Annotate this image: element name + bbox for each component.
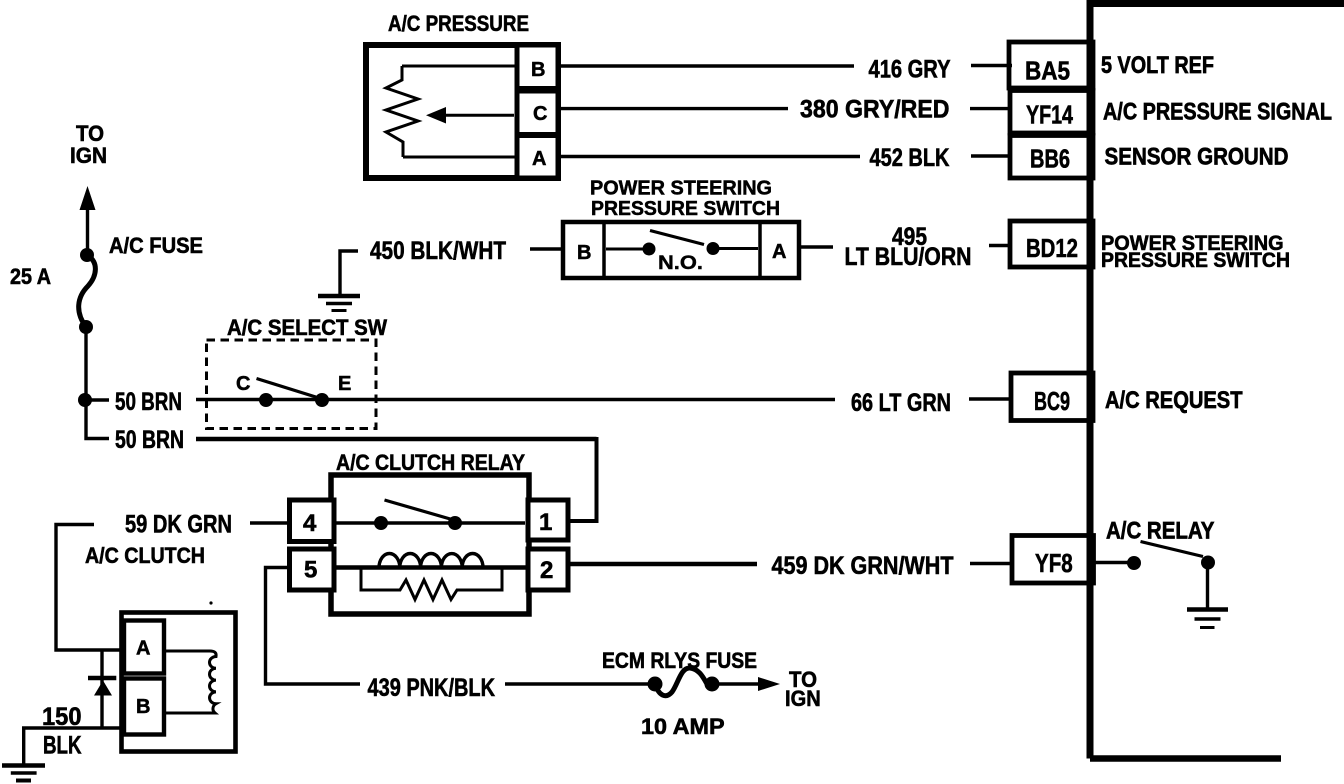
svg-text:B: B	[577, 242, 591, 264]
svg-text:380 GRY/RED: 380 GRY/RED	[800, 96, 950, 124]
svg-text:BB6: BB6	[1030, 144, 1070, 174]
svg-text:1: 1	[539, 509, 552, 536]
svg-text:59 DK GRN: 59 DK GRN	[125, 511, 232, 539]
svg-text:50 BRN: 50 BRN	[115, 426, 184, 454]
svg-text:LT BLU/ORN: LT BLU/ORN	[845, 243, 972, 271]
svg-text:A/C REQUEST: A/C REQUEST	[1105, 387, 1243, 414]
svg-text:459 DK GRN/WHT: 459 DK GRN/WHT	[772, 552, 954, 580]
svg-text:439 PNK/BLK: 439 PNK/BLK	[368, 674, 496, 702]
svg-text:A/C PRESSURE: A/C PRESSURE	[388, 11, 529, 36]
svg-text:66 LT GRN: 66 LT GRN	[851, 389, 951, 417]
svg-text:416 GRY: 416 GRY	[869, 56, 951, 84]
svg-text:A: A	[136, 638, 150, 660]
svg-text:B: B	[531, 59, 545, 81]
svg-text:452 BLK: 452 BLK	[870, 144, 950, 172]
svg-text:A/C RELAY: A/C RELAY	[1106, 518, 1214, 545]
svg-text:PRESSURE SWITCH: PRESSURE SWITCH	[1101, 249, 1290, 272]
svg-text:SENSOR GROUND: SENSOR GROUND	[1105, 143, 1289, 170]
svg-text:5: 5	[304, 557, 317, 584]
svg-text:A/C SELECT SW: A/C SELECT SW	[227, 315, 387, 340]
svg-text:A: A	[532, 148, 546, 170]
svg-text:A: A	[772, 241, 786, 263]
svg-text:4: 4	[303, 510, 317, 537]
svg-text:BA5: BA5	[1025, 56, 1070, 86]
svg-text:IGN: IGN	[785, 686, 821, 711]
svg-text:150: 150	[42, 703, 82, 731]
svg-text:BD12: BD12	[1026, 233, 1078, 263]
svg-text:50 BRN: 50 BRN	[115, 388, 182, 416]
svg-text:450 BLK/WHT: 450 BLK/WHT	[370, 237, 506, 265]
svg-text:YF8: YF8	[1035, 548, 1073, 578]
svg-text:POWER STEERING: POWER STEERING	[590, 178, 772, 200]
svg-text:A/C FUSE: A/C FUSE	[109, 233, 203, 258]
svg-text:A/C CLUTCH RELAY: A/C CLUTCH RELAY	[336, 450, 525, 475]
svg-text:BC9: BC9	[1034, 386, 1070, 416]
svg-text:BLK: BLK	[43, 732, 82, 760]
svg-text:B: B	[136, 696, 150, 718]
svg-text:PRESSURE SWITCH: PRESSURE SWITCH	[591, 198, 780, 220]
svg-text:YF14: YF14	[1026, 100, 1073, 130]
svg-text:25 A: 25 A	[10, 264, 51, 289]
svg-text:5 VOLT REF: 5 VOLT REF	[1101, 52, 1214, 79]
svg-text:A/C PRESSURE SIGNAL: A/C PRESSURE SIGNAL	[1103, 99, 1332, 126]
svg-text:C: C	[533, 103, 547, 125]
svg-text:10 AMP: 10 AMP	[641, 714, 725, 739]
svg-text:C: C	[236, 373, 250, 395]
svg-text:E: E	[338, 373, 351, 395]
svg-text:ECM RLYS FUSE: ECM RLYS FUSE	[602, 648, 757, 673]
svg-text:N.O.: N.O.	[658, 253, 703, 274]
svg-text:A/C CLUTCH: A/C CLUTCH	[85, 543, 205, 568]
svg-text:2: 2	[540, 557, 553, 584]
svg-text:IGN: IGN	[70, 143, 107, 168]
